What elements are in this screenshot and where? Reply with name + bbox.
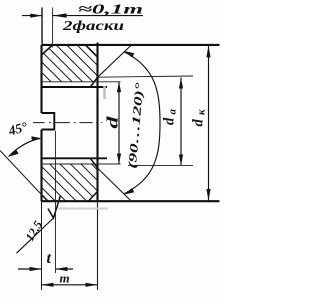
dimension m line with arrows bbox=[42, 284, 98, 286]
countersink generator extended top bbox=[98, 45, 132, 77]
bore minor thick line bottom bbox=[42, 157, 108, 159]
dimension 0.1m arrowhead pointing left bbox=[53, 13, 67, 17]
chamfer top-left bbox=[42, 45, 53, 55]
dimension t left arrow bbox=[18, 268, 42, 270]
slot outline bbox=[42, 113, 55, 130]
right face extension line thin bbox=[97, 201, 99, 290]
thread major thin line bottom bbox=[42, 163, 121, 165]
dimension 0.1m arrowhead pointing right bbox=[30, 14, 42, 18]
thread major thin line top bbox=[42, 81, 121, 83]
dimension t right arrow bbox=[56, 268, 74, 270]
svg-text:(90…120)°: (90…120)° bbox=[127, 82, 147, 169]
dimension 0.1m fraction bar line bbox=[53, 15, 143, 17]
hatched section bottom block bbox=[42, 164, 98, 201]
angle arc 90-120 with arrowheads bbox=[125, 52, 161, 194]
svg-text:a: a bbox=[167, 109, 179, 115]
svg-text:d: d bbox=[191, 119, 207, 127]
left face line bbox=[40, 45, 42, 201]
svg-text:≈0,1m: ≈0,1m bbox=[78, 3, 143, 18]
scan ghost mark bbox=[103, 86, 106, 99]
left face extension lines thin bbox=[41, 8, 43, 291]
svg-text:m: m bbox=[60, 271, 70, 286]
chamfer bottom-left bbox=[42, 195, 48, 202]
svg-text:d: d bbox=[105, 116, 122, 128]
countersink generator extended bottom bbox=[98, 168, 132, 201]
chamfer top-right bbox=[86, 45, 98, 57]
dimension da extension top oblique bbox=[98, 76, 194, 77]
countersink chamfer top bbox=[90, 77, 97, 87]
dimension d line with arrows bbox=[118, 82, 120, 164]
dimension 45 arc with arrows bbox=[9, 139, 40, 157]
chamfer 45 construction line bbox=[0, 151, 48, 202]
right face line bbox=[96, 43, 98, 202]
svg-text:t: t bbox=[47, 250, 52, 267]
chamfer bottom-right bbox=[89, 192, 98, 202]
dimension da extension bottom bbox=[128, 164, 193, 166]
hatched section top block bbox=[42, 45, 98, 81]
svg-text:2фаски: 2фаски bbox=[62, 19, 125, 34]
bore minor thick line top bbox=[42, 86, 108, 88]
centerline axis bbox=[33, 122, 103, 124]
dimension 0.1m extension line 1 bbox=[41, 8, 43, 45]
dimension da line with arrows bbox=[180, 78, 182, 166]
countersink chamfer bottom bbox=[90, 158, 97, 168]
bottom face line with dk extension bbox=[42, 200, 220, 202]
svg-text:к: к bbox=[196, 109, 208, 115]
dimension 0.1m extension line 2 bbox=[52, 8, 54, 48]
dimension t extension line bbox=[55, 131, 57, 273]
roughness check mark bbox=[48, 196, 61, 219]
svg-text:45°: 45° bbox=[6, 119, 30, 139]
dimension 0.1m arrow left tail bbox=[22, 15, 42, 17]
scan ghost smear bottom bbox=[58, 208, 108, 210]
svg-text:d: d bbox=[162, 117, 178, 125]
top face line with dk extension bbox=[42, 44, 220, 46]
roughness leader line bbox=[17, 218, 54, 253]
dimension dk line with arrows bbox=[208, 45, 210, 201]
